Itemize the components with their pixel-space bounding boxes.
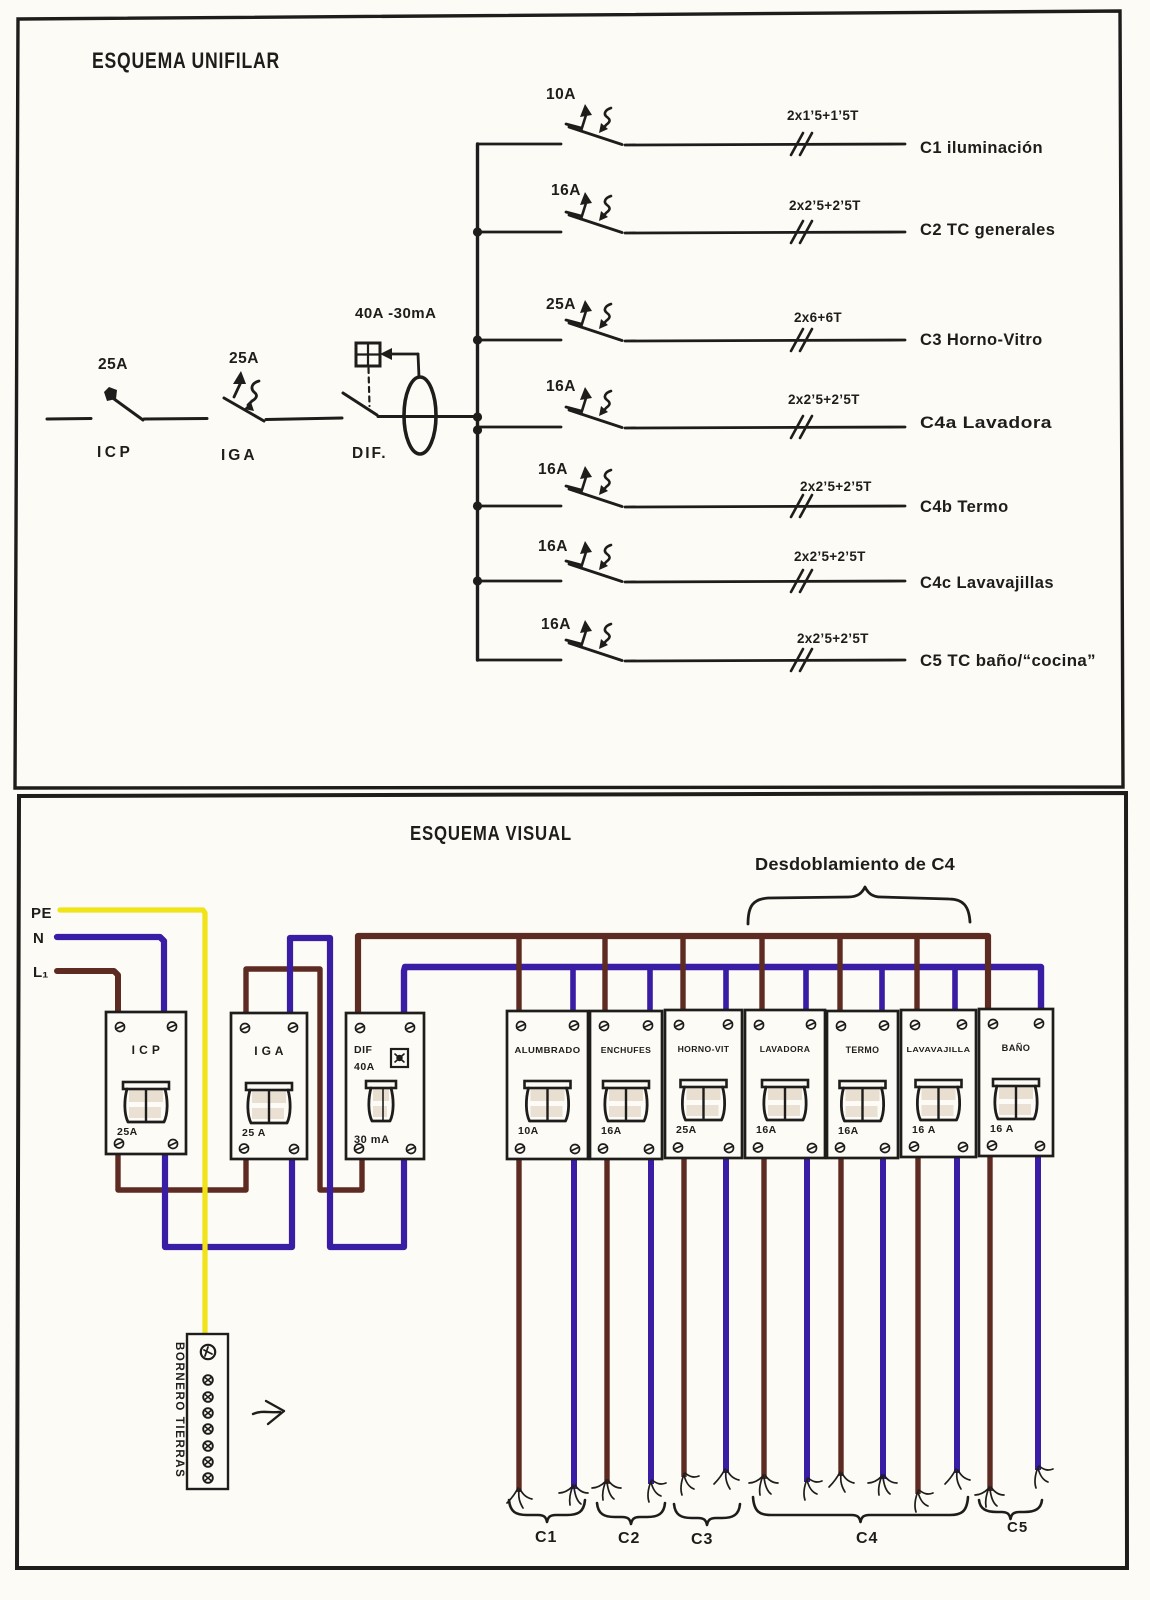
wire: C4a breaker to load [625, 427, 905, 428]
svg-text:25A: 25A [229, 350, 259, 367]
node: bus junction C3 [473, 335, 482, 344]
brace: circuit group C2 [597, 1503, 665, 1524]
frayed end: C1 neutral [559, 1485, 588, 1505]
wire: bus to C4c breaker [478, 580, 562, 583]
breaker C4b 16A [566, 466, 622, 507]
svg-text:ALUMBRADO: ALUMBRADO [515, 1045, 581, 1055]
svg-text:40A -30mA: 40A -30mA [355, 305, 436, 322]
frayed end: C5 phase [975, 1487, 1004, 1507]
frayed end: C1 phase [507, 1488, 532, 1508]
wire: C5 neutral tail [1035, 1150, 1041, 1470]
wire: C3 breaker to load [625, 340, 905, 341]
breaker module IGA (visual) [231, 1013, 307, 1159]
wire: C3 phase tail [681, 1150, 686, 1477]
arrow: points to terminal block [253, 1401, 284, 1424]
node: bus junction C2 [473, 227, 482, 236]
svg-text:2x6+6T: 2x6+6T [794, 310, 842, 325]
wire: C2 phase tail [604, 1150, 609, 1484]
svg-text:25A: 25A [98, 356, 128, 373]
wire: C4 lavavajillas phase tail [915, 1150, 920, 1494]
frayed end: C2 neutral [648, 1480, 666, 1502]
svg-text:C1: C1 [535, 1529, 557, 1546]
frame: lower panel border (esquema visual) [17, 793, 1127, 1568]
svg-text:C3 Horno-Vitro: C3 Horno-Vitro [920, 331, 1043, 349]
frayed end: C5 neutral [1035, 1466, 1053, 1488]
wire: bus to C4a breaker [478, 426, 562, 429]
breaker module HORNO-VIT [665, 1010, 742, 1158]
wire: bus to C1 breaker [478, 143, 562, 146]
cable mark C1 (double slash) [791, 133, 812, 155]
wire: C1 breaker to load [625, 144, 905, 145]
svg-text:C5: C5 [1007, 1519, 1028, 1536]
wire: C4 termo neutral tail [880, 1150, 886, 1479]
wire: C4b breaker to load [625, 506, 905, 507]
bus: vertical distribution bus [476, 144, 479, 660]
cable mark C4c (double slash) [791, 570, 812, 592]
wire: IGA out to DIF in (blue neutral link) [290, 938, 404, 1247]
breaker module ENCHUFES [590, 1011, 662, 1159]
svg-text:Desdoblamiento de C4: Desdoblamiento de C4 [755, 854, 955, 874]
frayed end: C4 termo phase [829, 1472, 854, 1492]
node: bus junction feed [473, 412, 482, 421]
node: bus junction C4c [473, 576, 482, 585]
breaker C1 10A [566, 104, 622, 145]
wire: C3 neutral tail [723, 1150, 729, 1473]
svg-text:25A: 25A [117, 1126, 138, 1138]
breaker C4c 16A [566, 541, 622, 582]
RCD DIF 40A-30mA (blade, relay box, test arrow, toroid) [343, 343, 436, 454]
node: bus junction C4b [473, 501, 482, 510]
svg-text:16A: 16A [756, 1124, 777, 1136]
breaker ICP (main switch) [104, 387, 143, 420]
brace: circuit group C5 [979, 1500, 1042, 1519]
svg-text:16A: 16A [538, 538, 568, 555]
svg-text:ICP: ICP [97, 444, 133, 461]
svg-text:L₁: L₁ [33, 964, 48, 981]
wire: ICP out to IGA in (brown phase link) [118, 1150, 246, 1190]
svg-text:2x2’5+2’5T: 2x2’5+2’5T [797, 631, 869, 646]
svg-text:C2 TC generales: C2 TC generales [920, 221, 1055, 239]
wire: service entry stub [47, 417, 91, 421]
wire: C5 breaker to load [625, 660, 905, 661]
bus: blue neutral distribution (from DIF) [404, 967, 1041, 1016]
svg-text:C4: C4 [856, 1530, 878, 1547]
svg-text:I G A: I G A [254, 1044, 284, 1058]
svg-text:DIF.: DIF. [352, 445, 388, 462]
cable mark C4b (double slash) [791, 495, 812, 517]
frayed end: C4 lavadora neutral [804, 1478, 822, 1500]
frayed end: C4 lavavajillas neutral [945, 1469, 970, 1489]
wire: ICP to IGA [144, 417, 207, 421]
cable mark C2 (double slash) [791, 221, 812, 243]
breaker module LAVAVAJILLA [901, 1010, 976, 1157]
svg-text:25 A: 25 A [242, 1127, 266, 1139]
wire: phase drop 5 [837, 936, 842, 1012]
wire: ICP out to IGA in (blue neutral link) [165, 1150, 292, 1247]
svg-text:C3: C3 [691, 1531, 713, 1548]
svg-text:2x2’5+2’5T: 2x2’5+2’5T [794, 549, 866, 564]
breaker module TERMO [827, 1011, 898, 1158]
wire: neutral drop 2 [647, 967, 653, 1012]
frame: upper panel border (esquema unifilar) [15, 11, 1123, 788]
breaker module ICP (visual) [106, 1012, 186, 1154]
wire: phase drop 3 [680, 936, 685, 1012]
svg-text:ESQUEMA VISUAL: ESQUEMA VISUAL [410, 823, 572, 845]
wire L1 feed (brown) to ICP [57, 971, 118, 1016]
svg-text:BAÑO: BAÑO [1002, 1043, 1031, 1053]
svg-text:PE: PE [31, 905, 52, 922]
svg-text:16 A: 16 A [912, 1124, 936, 1136]
svg-text:2x2’5+2’5T: 2x2’5+2’5T [800, 479, 872, 494]
svg-text:N: N [33, 930, 44, 947]
svg-text:40A: 40A [354, 1061, 375, 1073]
cable mark C3 (double slash) [791, 329, 812, 351]
RCD module DIF 40A 30mA (visual) [346, 1013, 424, 1159]
svg-text:16A: 16A [541, 616, 571, 633]
wire: neutral drop 4 [803, 967, 809, 1012]
wire: C4 termo phase tail [838, 1150, 843, 1476]
wire: C1 neutral tail [571, 1150, 577, 1489]
wire: phase drop 4 [759, 936, 764, 1012]
cable mark C5 (double slash) [791, 649, 812, 671]
wire: neutral drop 6 [952, 967, 958, 1012]
svg-text:30 mA: 30 mA [354, 1134, 390, 1146]
svg-text:16A: 16A [551, 182, 581, 199]
node: bus junction C4a [473, 425, 482, 434]
bus: brown phase distribution (from DIF) [358, 936, 988, 1016]
wire: neutral drop 1 [570, 967, 576, 1012]
wire: C4c breaker to load [625, 581, 905, 582]
frayed end: C4 lavadora phase [749, 1475, 778, 1495]
wire: bus to C5 breaker [478, 659, 562, 662]
svg-text:16A: 16A [546, 378, 576, 395]
breaker C4a 16A [566, 387, 622, 428]
svg-text:I C P: I C P [132, 1043, 161, 1057]
brace over C4 group [748, 887, 970, 924]
svg-text:16A: 16A [538, 461, 568, 478]
svg-text:IGA: IGA [221, 447, 258, 464]
svg-text:TERMO: TERMO [846, 1045, 880, 1055]
breaker C2 16A [566, 192, 622, 233]
svg-text:25A: 25A [676, 1124, 697, 1136]
brace: circuit group C1 [509, 1500, 585, 1522]
wire N feed (blue) to ICP [57, 937, 164, 1016]
svg-text:16A: 16A [838, 1125, 859, 1137]
svg-text:2x2’5+2’5T: 2x2’5+2’5T [789, 198, 861, 213]
svg-text:ESQUEMA UNIFILAR: ESQUEMA UNIFILAR [92, 48, 280, 73]
svg-text:2x2’5+2’5T: 2x2’5+2’5T [788, 392, 860, 407]
wire: neutral drop 5 [879, 967, 885, 1012]
wire: C4 lavavajillas neutral tail [954, 1150, 960, 1473]
brace: circuit group C4 [753, 1497, 968, 1522]
wire: DIF to distribution bus [378, 415, 478, 418]
svg-text:LAVAVAJILLA: LAVAVAJILLA [907, 1045, 971, 1054]
wire: phase drop 6 [914, 936, 919, 1012]
wire: IGA to DIF [266, 418, 342, 420]
wire: C1 phase tail [516, 1150, 521, 1492]
wire: bus to C4b breaker [478, 505, 562, 508]
cable mark C4a (double slash) [791, 416, 812, 438]
breaker C5 16A [566, 620, 622, 661]
breaker module ALUMBRADO [507, 1011, 588, 1159]
svg-text:16A: 16A [601, 1125, 622, 1137]
wire PE (yellow) to earth terminal block [60, 910, 205, 1333]
svg-text:ENCHUFES: ENCHUFES [601, 1045, 651, 1055]
frayed end: C4 lavavajillas phase [915, 1490, 933, 1512]
wire: phase drop 1 [516, 936, 521, 1012]
svg-text:C5 TC baño/“cocina”: C5 TC baño/“cocina” [920, 652, 1096, 670]
svg-text:HORNO-VIT: HORNO-VIT [678, 1044, 730, 1054]
svg-text:C1 iluminación: C1 iluminación [920, 139, 1043, 157]
frayed end: C3 neutral [714, 1469, 739, 1489]
svg-text:C4c Lavavajillas: C4c Lavavajillas [920, 574, 1054, 592]
breaker module LAVADORA [745, 1010, 825, 1158]
svg-text:16 A: 16 A [990, 1123, 1014, 1135]
svg-text:2x1’5+1’5T: 2x1’5+1’5T [787, 108, 859, 123]
wire: C5 phase tail [987, 1150, 992, 1491]
breaker module BA&#209;O [979, 1009, 1053, 1156]
brace: circuit group C3 [674, 1504, 740, 1525]
wire: bus to C2 breaker [478, 231, 562, 234]
wire: IGA out to DIF in (brown phase link) [246, 969, 362, 1190]
breaker C3 25A [566, 300, 622, 341]
svg-text:C2: C2 [618, 1530, 640, 1547]
svg-text:C4b Termo: C4b Termo [920, 498, 1009, 516]
wire: C4 lavadora phase tail [761, 1150, 766, 1479]
svg-text:BORNERO TIERRAS: BORNERO TIERRAS [173, 1342, 185, 1478]
wire: C2 neutral tail [648, 1150, 654, 1484]
breaker IGA (switch with trip arrow and coil mark) [224, 371, 264, 421]
wire: bus to C3 breaker [478, 339, 562, 342]
frayed end: C2 phase [592, 1480, 621, 1500]
svg-text:C4a Lavadora: C4a Lavadora [920, 414, 1052, 432]
frayed end: C3 phase [681, 1473, 699, 1495]
wire: neutral drop 3 [723, 967, 729, 1012]
wire: C4 lavadora neutral tail [804, 1150, 810, 1482]
wire: C2 breaker to load [625, 232, 905, 233]
svg-text:LAVADORA: LAVADORA [760, 1044, 811, 1054]
svg-text:10A: 10A [546, 86, 576, 103]
wire: phase drop 2 [602, 936, 607, 1012]
svg-text:25A: 25A [546, 296, 576, 313]
svg-text:DIF: DIF [354, 1044, 373, 1056]
terminal block BORNERO TIERRAS [187, 1334, 228, 1489]
svg-text:10A: 10A [518, 1125, 539, 1137]
frayed end: C4 termo neutral [868, 1475, 897, 1495]
